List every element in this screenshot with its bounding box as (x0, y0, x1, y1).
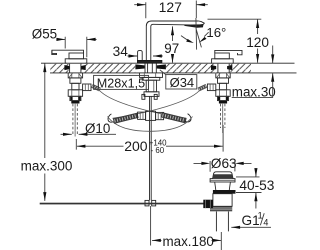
svg-text:4: 4 (263, 217, 268, 227)
left valve shank through deck (70, 64, 81, 73)
label box Ø34 with leader (166, 75, 197, 89)
spout base plate (dark) (137, 60, 162, 63)
left lower block (70, 96, 81, 100)
left hose hex union (83, 84, 91, 91)
left hose curl end (108, 114, 115, 122)
svg-text:200: 200 (124, 138, 148, 154)
svg-text:120: 120 (246, 35, 269, 50)
waste flange (210, 179, 235, 182)
spout outlet tip cap (199, 21, 205, 24)
right handle lever (215, 50, 242, 54)
seal washers left valve (black) (64, 65, 69, 70)
Ø55 extension lines (65, 37, 87, 57)
spout shank through deck (145, 63, 156, 73)
mixer body below deck (146, 80, 156, 92)
right valve mounting nut (216, 73, 230, 78)
flexible hose from left valve (thin curve) (100, 91, 187, 119)
svg-text:34: 34 (113, 44, 129, 59)
svg-text:M28x1,5: M28x1,5 (97, 76, 145, 90)
rod ball joint at waste (black) (203, 200, 213, 208)
svg-text:Ø10: Ø10 (85, 121, 110, 136)
left handle body (69, 53, 84, 59)
svg-text:127: 127 (159, 0, 183, 15)
pop-up rod lower guide block (145, 200, 149, 206)
waste body (213, 194, 232, 207)
left braided hose segment (114, 115, 139, 121)
mounting flange step (142, 77, 160, 80)
right compression nut (216, 90, 230, 97)
svg-text:40-53: 40-53 (239, 178, 274, 193)
svg-text:Ø34: Ø34 (170, 75, 195, 90)
pop-up pull rod knob (138, 50, 143, 60)
left valve stem (72, 83, 79, 90)
waste lock nut (dark) (213, 190, 236, 194)
left hose braided stub (92, 86, 100, 90)
waste centerline below (220, 232, 222, 250)
spout shank seals (black) (135, 64, 144, 69)
hose slack lower loop (108, 117, 193, 132)
right valve body (218, 78, 229, 83)
svg-text:Ø55: Ø55 (32, 26, 57, 41)
waste tailpipe (216, 212, 228, 232)
right hose braided stub (198, 86, 206, 90)
right pipe centerline (222, 104, 224, 133)
svg-text:- 60: - 60 (151, 146, 165, 155)
label box M28x1,5 (94, 75, 149, 89)
horizontal actuating rod (40, 203, 204, 205)
right handle escutcheon (212, 59, 234, 63)
countertop top surface line (41, 62, 295, 64)
right lower block (218, 96, 229, 100)
left hose hex nut at mixer (138, 112, 146, 119)
waste union band (dark) (210, 207, 232, 212)
right hose curl end (185, 114, 192, 122)
flexible hose from right valve (thin curve) (113, 91, 200, 119)
right pipe fitting (black) (219, 101, 227, 104)
Ø63 extension lines (210, 161, 235, 172)
127 extension lines (146, 1, 197, 19)
right hose hex nut at mixer (156, 112, 164, 119)
countertop hatch band (50, 64, 69, 73)
pop-up rod (150, 96, 152, 200)
waste dome side (dark) (213, 174, 233, 178)
right hose hex union (207, 84, 215, 91)
right valve stem (219, 83, 226, 90)
left pipe fitting (black) (71, 101, 79, 104)
pop-up waste dome (213, 172, 233, 179)
center hose block (146, 111, 156, 120)
left handle escutcheon (65, 59, 87, 63)
left valve mounting nut (68, 73, 82, 78)
right supply pipe (dashed) (221, 104, 225, 128)
left handle lever (52, 50, 84, 54)
countertop bottom surface line (50, 72, 297, 74)
right handle body (215, 53, 230, 59)
svg-text:Ø63: Ø63 (211, 156, 237, 171)
200 extension lines (76, 125, 223, 152)
waste upper body taper (215, 182, 231, 190)
tee side tabs (142, 94, 145, 99)
16 deg plumb line and tilted spray line (196, 18, 202, 50)
spout mounting nut (140, 73, 163, 78)
spout body and arm (146, 21, 199, 63)
right valve shank through deck (218, 64, 229, 73)
svg-text:97: 97 (164, 41, 179, 56)
mixer tee block (144, 92, 159, 97)
left valve body (70, 78, 81, 83)
left compression nut (68, 90, 82, 97)
svg-text:16°: 16° (206, 25, 226, 40)
seal washers right valve (black) (211, 65, 216, 70)
left supply pipe (dashed) (73, 104, 77, 136)
16 deg leader arrows (181, 36, 189, 41)
center extension line below linkage (150, 206, 152, 246)
spout aerator face (dark) (184, 24, 203, 28)
right braided hose segment (162, 115, 187, 121)
left pipe centerline (74, 104, 76, 137)
svg-text:max.180: max.180 (163, 234, 214, 249)
svg-text:max.300: max.300 (21, 159, 73, 174)
